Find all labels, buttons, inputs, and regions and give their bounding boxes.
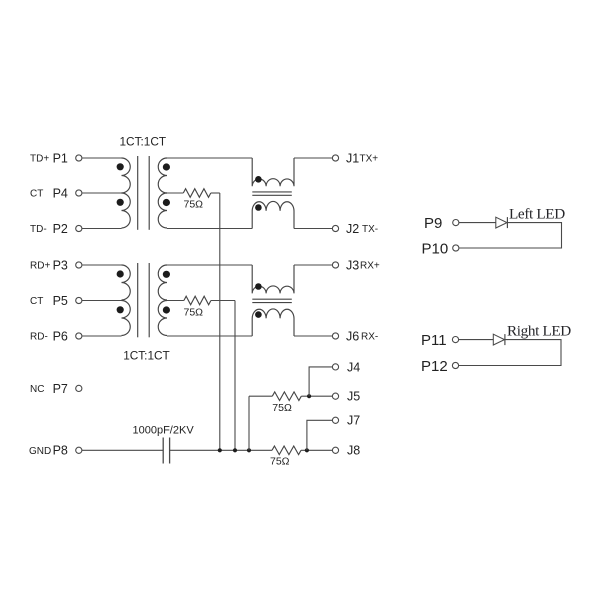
transformer T2 secondary winding lower half xyxy=(158,301,167,336)
LED D1 (Left LED) xyxy=(496,217,507,228)
svg-text:P4: P4 xyxy=(53,186,68,200)
terminal circle J1 xyxy=(332,155,338,161)
junction R3 drop on ground rail xyxy=(247,448,251,452)
transformer T1 secondary winding upper half xyxy=(158,158,167,193)
LED D2 (Right LED) xyxy=(493,334,504,345)
L2 top winding polarity dot xyxy=(255,283,262,290)
svg-text:RD+: RD+ xyxy=(30,261,50,272)
L1 top winding polarity dot xyxy=(255,176,262,183)
wire R3 drop to ground rail xyxy=(248,396,250,450)
wire T1 secondary bottom to choke L1 xyxy=(167,228,252,230)
wire P4 to transformer xyxy=(82,192,122,194)
wire J7 branch down to J8 node xyxy=(307,420,333,450)
junction node J7/J8 xyxy=(305,448,309,452)
terminal circle P7 xyxy=(76,385,82,391)
svg-text:75Ω: 75Ω xyxy=(184,307,204,319)
svg-text:CT: CT xyxy=(30,189,43,200)
wire P9 to LED D1 anode xyxy=(459,222,496,224)
wire R3 left lead xyxy=(249,395,272,397)
terminal circle P1 xyxy=(76,155,82,161)
wire T1 secondary top to choke L1 xyxy=(167,157,252,159)
terminal circle P8 xyxy=(76,447,82,453)
terminal circle J2 xyxy=(332,225,338,231)
svg-text:P10: P10 xyxy=(422,240,449,257)
wire R3 to J5 xyxy=(301,395,332,397)
svg-text:J3: J3 xyxy=(346,258,359,272)
svg-text:RX+: RX+ xyxy=(360,261,380,272)
wire P11 to LED D2 anode xyxy=(459,339,494,341)
wire L2 to J3 xyxy=(294,264,332,266)
svg-text:P6: P6 xyxy=(53,329,68,343)
transformer T2 secondary winding upper half xyxy=(158,265,167,300)
terminal circle J4 xyxy=(332,364,338,370)
wire P3 to transformer xyxy=(82,264,122,266)
terminal circle P9 xyxy=(453,220,459,226)
L2 bottom winding polarity dot xyxy=(255,311,262,318)
resistor R1 75 ohm xyxy=(183,189,211,198)
choke L1 top winding xyxy=(252,158,294,186)
svg-text:GND: GND xyxy=(29,446,51,457)
T1 secondary polarity dot upper xyxy=(163,163,170,170)
wire P8 to capacitor C1 xyxy=(82,449,163,451)
wire P6 to transformer xyxy=(82,335,122,337)
svg-text:Right LED: Right LED xyxy=(507,322,571,339)
wire R1 drop to ground rail xyxy=(219,193,221,450)
wire C1 to ground rail junctions xyxy=(170,449,272,451)
svg-text:75Ω: 75Ω xyxy=(272,402,292,414)
svg-text:P12: P12 xyxy=(421,358,448,375)
transformer T2 primary winding upper half xyxy=(122,265,131,300)
T1 primary polarity dot upper xyxy=(117,163,124,170)
svg-text:J8: J8 xyxy=(347,444,360,458)
svg-text:Left LED: Left LED xyxy=(509,205,565,222)
terminal circle J8 xyxy=(332,447,338,453)
wire J4 branch down to J5 node xyxy=(309,367,332,396)
wire R2 drop to ground rail xyxy=(234,301,236,451)
svg-text:TX+: TX+ xyxy=(360,154,379,165)
terminal circle J5 xyxy=(332,393,338,399)
svg-text:CT: CT xyxy=(30,296,43,307)
svg-text:P1: P1 xyxy=(53,151,68,165)
svg-text:P2: P2 xyxy=(53,222,68,236)
svg-text:TD-: TD- xyxy=(30,224,47,235)
svg-text:J1: J1 xyxy=(346,151,359,165)
junction R1 drop on ground rail xyxy=(218,448,222,452)
svg-text:P7: P7 xyxy=(53,382,68,396)
transformer T2 core xyxy=(137,263,139,337)
junction R2 drop on ground rail xyxy=(233,448,237,452)
wire R2 to vertical drop xyxy=(211,300,235,302)
wire D1 cathode loop to P10 xyxy=(459,223,562,248)
wire T2 center tap to R2 xyxy=(167,300,184,302)
choke L1 core xyxy=(252,191,291,193)
wire P5 to transformer xyxy=(82,300,122,302)
wire L1 to J1 xyxy=(294,157,332,159)
svg-text:TX-: TX- xyxy=(362,224,378,235)
transformer T2 primary winding lower half xyxy=(122,301,131,336)
resistor R3 75 ohm xyxy=(272,392,301,401)
T2 secondary polarity dot lower xyxy=(163,306,170,313)
terminal circle P4 xyxy=(76,190,82,196)
wire T2 secondary top to choke L2 xyxy=(167,264,252,266)
junction node J4/J5 xyxy=(307,394,311,398)
L1 bottom winding polarity dot xyxy=(255,204,262,211)
svg-text:1CT:1CT: 1CT:1CT xyxy=(123,349,170,363)
svg-text:J5: J5 xyxy=(347,390,360,404)
wire D2 cathode loop to P12 xyxy=(459,340,561,366)
wire L1 to J2 xyxy=(294,228,332,230)
wire R1 to vertical drop xyxy=(211,192,220,194)
svg-text:P3: P3 xyxy=(53,258,68,272)
choke L1 bottom winding xyxy=(252,201,294,228)
transformer T1 secondary winding lower half xyxy=(158,193,167,228)
T2 secondary polarity dot upper xyxy=(163,271,170,278)
terminal circle P3 xyxy=(76,262,82,268)
transformer T1 core xyxy=(137,156,139,230)
svg-text:J2: J2 xyxy=(346,222,359,236)
T2 primary polarity dot lower xyxy=(117,306,124,313)
capacitor C1 1000pF/2KV xyxy=(162,438,164,464)
svg-text:P11: P11 xyxy=(421,332,447,349)
svg-text:RX-: RX- xyxy=(361,332,378,343)
choke L2 core xyxy=(252,298,291,300)
choke L2 bottom winding xyxy=(252,309,294,336)
svg-text:1000pF/2KV: 1000pF/2KV xyxy=(133,424,195,436)
T1 secondary polarity dot lower xyxy=(163,199,170,206)
wire L2 to J6 xyxy=(294,335,332,337)
svg-text:J4: J4 xyxy=(347,360,360,374)
wire P1 to transformer xyxy=(82,157,122,159)
svg-text:75Ω: 75Ω xyxy=(270,455,290,467)
svg-text:RD-: RD- xyxy=(30,332,48,343)
terminal circle P2 xyxy=(76,225,82,231)
terminal circle J6 xyxy=(332,333,338,339)
T1 primary polarity dot lower xyxy=(117,199,124,206)
terminal circle P12 xyxy=(452,362,458,368)
svg-text:P8: P8 xyxy=(53,444,68,458)
svg-text:NC: NC xyxy=(30,384,44,395)
wire R4 to J8 xyxy=(301,449,332,451)
wire T2 secondary bottom to choke L2 xyxy=(167,335,252,337)
svg-text:1CT:1CT: 1CT:1CT xyxy=(120,134,167,148)
svg-text:P5: P5 xyxy=(53,294,68,308)
svg-text:P9: P9 xyxy=(424,215,442,232)
T2 primary polarity dot upper xyxy=(117,270,124,277)
resistor R4 75 ohm xyxy=(272,446,301,455)
svg-text:J6: J6 xyxy=(346,329,359,343)
terminal circle P5 xyxy=(76,297,82,303)
svg-text:75Ω: 75Ω xyxy=(184,198,204,210)
transformer T1 primary winding upper half xyxy=(122,158,131,193)
terminal circle J3 xyxy=(332,262,338,268)
terminal circle P6 xyxy=(76,333,82,339)
resistor R2 75 ohm xyxy=(184,296,211,305)
terminal circle P10 xyxy=(453,245,459,251)
wire T1 center tap to R1 xyxy=(167,192,183,194)
transformer T1 primary winding lower half xyxy=(122,193,131,228)
svg-text:J7: J7 xyxy=(347,414,360,428)
terminal circle P11 xyxy=(452,337,458,343)
terminal circle J7 xyxy=(332,417,338,423)
svg-text:TD+: TD+ xyxy=(30,154,49,165)
wire P2 to transformer xyxy=(82,228,122,230)
choke L2 top winding xyxy=(252,265,294,293)
